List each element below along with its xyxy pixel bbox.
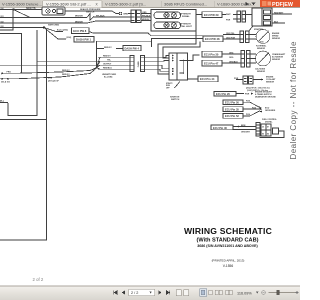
svg-text:ECU PW 48: ECU PW 48 <box>205 37 220 41</box>
svg-text:ORG/GRY: ORG/GRY <box>241 132 251 134</box>
orange watermark badge <box>260 0 300 7</box>
svg-text:WHT: WHT <box>226 14 231 16</box>
svg-text:GROUNDS: GROUNDS <box>265 110 276 112</box>
svg-text:ECU PW 29: ECU PW 29 <box>204 13 219 17</box>
ECU PW 8 label box <box>72 28 90 34</box>
wire drop from node to left <box>0 10 13 31</box>
svg-text:ECU Pin 30: ECU Pin 30 <box>204 52 219 56</box>
wire switch exits right <box>188 55 200 61</box>
wire riser x37 <box>8 30 37 116</box>
svg-text:116.09%: 116.09% <box>237 291 252 295</box>
svg-text:ECU Pin 52: ECU Pin 52 <box>225 114 239 118</box>
layout icon 1 pressed <box>200 289 207 296</box>
svg-text:(PRINTED APRIL, 2013): (PRINTED APRIL, 2013) <box>212 259 245 263</box>
svg-text:CRANKSHAFT: CRANKSHAFT <box>272 53 286 56</box>
lamp L4 <box>171 23 176 28</box>
wire bus row4 to node <box>0 27 44 29</box>
svg-text:PLM: PLM <box>246 114 250 116</box>
wire switch to ECU pin44 <box>188 78 199 80</box>
svg-text:Dealer Copy -- Not for Resale: Dealer Copy -- Not for Resale <box>289 41 298 160</box>
svg-text:ORG/BLK: ORG/BLK <box>229 61 238 63</box>
svg-text:BRN: BRN <box>241 125 246 127</box>
svg-text:RED/GY: RED/GY <box>62 74 70 76</box>
svg-text:PLM: PLM <box>252 107 256 109</box>
svg-text:ECU Pin 46: ECU Pin 46 <box>213 126 227 130</box>
svg-text:RED/GY: RED/GY <box>103 56 111 58</box>
svg-text:SKW TB: SKW TB <box>26 7 36 10</box>
svg-text:ENGINE EXHAUST: ENGINE EXHAUST <box>255 90 273 93</box>
svg-text:TAIL LIGHT: TAIL LIGHT <box>181 25 193 28</box>
wire ECU PW29 right <box>222 14 226 16</box>
fan motor M1 <box>42 7 65 15</box>
connector CAB5 right <box>140 56 144 72</box>
ignition switch S2 <box>169 53 188 80</box>
wire PRG row2 <box>16 68 96 79</box>
page field <box>129 289 155 296</box>
ECU Pin 35 label box <box>223 107 243 112</box>
ECU Pin 46 label box <box>211 125 233 130</box>
svg-text:PDF|EW: PDF|EW <box>272 2 294 8</box>
svg-text:CAB5: CAB5 <box>137 60 140 67</box>
lamp bracket bottom <box>154 22 181 29</box>
instrument panel big box <box>0 30 47 240</box>
svg-text:B+ (C/B): B+ (C/B) <box>104 76 113 78</box>
svg-text:ECU Pin 50: ECU Pin 50 <box>225 101 239 105</box>
layout icon 4 <box>226 290 229 295</box>
ECU Pin 44 label box <box>198 76 218 82</box>
svg-text:PRG: PRG <box>7 72 12 74</box>
connector J3 <box>240 31 244 43</box>
wire long bus to ECU PW 48 <box>89 32 203 36</box>
wire PRG row1 <box>16 68 96 74</box>
svg-text:SENSOR: SENSOR <box>257 71 266 73</box>
wire diagonal from node <box>14 10 31 18</box>
wire motor to junction <box>65 11 119 14</box>
svg-text:SWITCH: SWITCH <box>171 99 180 101</box>
svg-text:SENSOR: SENSOR <box>266 82 275 84</box>
svg-text:DASH PW 4: DASH PW 4 <box>125 47 140 51</box>
svg-text:PUR: PUR <box>245 93 250 95</box>
svg-text:ECU Pin 44: ECU Pin 44 <box>200 77 215 81</box>
svg-text:COOLANT: COOLANT <box>266 78 276 81</box>
svg-text:OUTPUT: OUTPUT <box>103 64 112 66</box>
svg-text:PPL/BLK: PPL/BLK <box>142 16 151 18</box>
wires to G2 connector <box>222 53 241 55</box>
svg-text:RED/WHT: RED/WHT <box>274 12 284 14</box>
layout icon 2 <box>209 290 213 295</box>
svg-text:ECU Pin 35: ECU Pin 35 <box>225 107 239 111</box>
svg-text:3686 (S/N AVW211001 AND ABOVE): 3686 (S/N AVW211001 AND ABOVE) <box>197 244 258 248</box>
lamp housing box <box>151 10 196 32</box>
prev page button <box>122 291 125 295</box>
svg-text:SENSOR: SENSOR <box>257 48 266 50</box>
svg-text:300-A 100: 300-A 100 <box>1 81 10 84</box>
connector J4 <box>241 51 245 68</box>
node N1 <box>43 26 45 28</box>
svg-text:RED: RED <box>143 12 148 14</box>
pressure switch S1 <box>87 14 94 21</box>
switch wiper arrow <box>175 83 180 89</box>
lamp bracket top <box>154 12 181 19</box>
svg-text:3686 RFU5 Combined...: 3686 RFU5 Combined... <box>164 1 207 6</box>
ignition nest wires <box>144 56 169 58</box>
ECU PW 48 label box <box>203 36 223 42</box>
wires continue to switch nest <box>144 56 160 58</box>
diode D2 row <box>0 78 16 84</box>
wire lower feed <box>0 119 47 121</box>
gauge G1 connector feed <box>223 34 240 36</box>
svg-text:87: 87 <box>267 126 269 128</box>
zoom slider track <box>269 292 296 294</box>
svg-text:RED/GY: RED/GY <box>62 70 70 72</box>
wire switched B+ feed <box>96 41 151 67</box>
svg-text:& TRANS SWITCH: & TRANS SWITCH <box>255 93 272 96</box>
ECU Pin 52 label box <box>223 114 243 119</box>
connector CAB5 left <box>130 56 134 72</box>
tab 5 <box>214 1 216 7</box>
lamp L1 <box>164 13 169 18</box>
tab scroll arrows <box>246 2 249 6</box>
tab 4 <box>161 1 163 7</box>
svg-text:MED/DK: MED/DK <box>75 21 83 23</box>
wire bus row2 <box>0 17 87 19</box>
wire to J2 <box>128 13 131 15</box>
prev view icon <box>176 290 181 296</box>
svg-text:MED/DK: MED/DK <box>142 19 150 21</box>
wire to DASH PW 1 <box>44 28 66 40</box>
tab 2 active <box>43 1 102 8</box>
zoom out icon <box>262 291 266 295</box>
wires to lamp box <box>141 13 151 15</box>
svg-text:2 / 2: 2 / 2 <box>131 291 138 295</box>
DASH PW 4 label box <box>123 46 141 51</box>
svg-text:PPL/BLK: PPL/BLK <box>96 15 105 17</box>
layout icon 3 <box>215 290 218 295</box>
svg-text:V-1680-3600 Delux...: V-1680-3600 Delux... <box>217 1 255 6</box>
lamp L3 <box>164 23 169 28</box>
wire <box>94 16 131 18</box>
DASH PW 1 label box <box>74 36 94 42</box>
wire bus row3 <box>0 22 87 24</box>
diode D1 row <box>1 72 16 75</box>
svg-text:DEAERATOR GROUND: DEAERATOR GROUND <box>255 96 276 99</box>
svg-text:[297] (41 OF: [297] (41 OF <box>48 79 60 82</box>
wire top feed <box>0 9 42 11</box>
svg-text:V-1556-3690 Std-2.pdf ...: V-1556-3690 Std-2.pdf ... <box>46 1 91 6</box>
ECU Pin 30 label box <box>202 51 222 57</box>
ECU Pin 47 label box <box>202 60 222 66</box>
wire to ECU PW 8 <box>44 28 63 32</box>
svg-text:SENSOR: SENSOR <box>272 38 281 40</box>
svg-text:BRN: BRN <box>124 13 129 15</box>
svg-text:2 of 2: 2 of 2 <box>33 277 44 282</box>
next view icon <box>184 290 189 296</box>
svg-text:V-1556: V-1556 <box>223 264 234 268</box>
wire prg return loop <box>0 34 22 74</box>
svg-text:DIGITAL: DIGITAL <box>265 120 273 123</box>
svg-text:ECU Pin 47: ECU Pin 47 <box>204 61 219 65</box>
svg-text:B+(C) [292]: B+(C) [292] <box>57 30 68 32</box>
svg-text:SIGNAL: SIGNAL <box>182 15 190 18</box>
svg-text:ORG: ORG <box>229 57 234 59</box>
last page button <box>166 291 170 295</box>
svg-text:85: 85 <box>262 134 264 136</box>
coolant sensor connector <box>234 76 263 84</box>
next page button <box>159 291 162 295</box>
svg-text:ORG: ORG <box>229 52 234 54</box>
connector J2 <box>131 10 141 23</box>
svg-text:[292]: [292] <box>67 37 72 39</box>
zoom slider knob <box>277 290 280 294</box>
wires to relay <box>233 126 256 128</box>
node ground circle <box>119 12 122 15</box>
wire rows to cab connector <box>37 60 130 62</box>
svg-text:ECU PW 8: ECU PW 8 <box>73 29 86 33</box>
svg-text:ECU: ECU <box>48 77 53 79</box>
lamp L2 <box>171 13 176 18</box>
starter solenoid block <box>226 8 293 32</box>
wire bus lower <box>152 39 203 42</box>
node junction dot top-left <box>12 8 14 10</box>
svg-text:ACTUATION: ACTUATION <box>272 56 284 59</box>
tab 3 <box>101 1 103 7</box>
ECU PW 29 label box <box>202 12 222 18</box>
ECU Pin 20 label box <box>214 91 236 96</box>
tab 1 inactive <box>0 1 42 8</box>
svg-text:PLM: PLM <box>246 101 250 103</box>
gauge G1 engine speed sensor <box>256 30 270 44</box>
zoom in <box>296 291 298 294</box>
gauge G2 crankshaft sensor <box>256 51 271 66</box>
svg-text:PUR: PUR <box>234 78 239 80</box>
svg-text:PUR: PUR <box>226 19 231 21</box>
wires converge to ecu ground <box>243 102 260 107</box>
svg-text:ECU Pin 20: ECU Pin 20 <box>216 92 230 96</box>
wire lamp box to ECU PW 29 <box>196 14 202 16</box>
svg-text:V-1556-3600 Deluxe...: V-1556-3600 Deluxe... <box>2 1 42 6</box>
svg-text:CAL MODE: CAL MODE <box>255 67 266 70</box>
node splice B+ <box>96 57 101 69</box>
svg-text:[295] YEL: [295] YEL <box>226 33 235 35</box>
svg-text:V-1555-3600-2.pdf [S...: V-1555-3600-2.pdf [S... <box>105 1 146 6</box>
svg-text:DASH PW 1: DASH PW 1 <box>76 38 91 42</box>
svg-text:MED/DK: MED/DK <box>75 16 83 18</box>
wire to DASH PW 4 <box>96 48 104 50</box>
svg-text:86: 86 <box>267 134 269 136</box>
svg-text:SENSOR: SENSOR <box>272 59 281 61</box>
svg-text:30: 30 <box>262 126 264 128</box>
svg-text:RED/BLU: RED/BLU <box>103 68 112 70</box>
svg-text:0-5000: 0-5000 <box>259 42 264 44</box>
first page button <box>114 291 118 295</box>
svg-text:(With STANDARD CAB): (With STANDARD CAB) <box>197 238 259 244</box>
svg-text:[295] PUR: [295] PUR <box>226 37 236 39</box>
ECU Pin 50 label box <box>223 100 243 105</box>
svg-text:WIRING SCHEMATIC: WIRING SCHEMATIC <box>184 226 272 236</box>
svg-text:RED/GY: RED/GY <box>104 47 112 49</box>
svg-text:SWITCHED: SWITCHED <box>48 25 60 27</box>
tab bar background <box>0 0 300 8</box>
relay K1 <box>256 123 284 138</box>
svg-text:BLK: BLK <box>274 21 279 23</box>
